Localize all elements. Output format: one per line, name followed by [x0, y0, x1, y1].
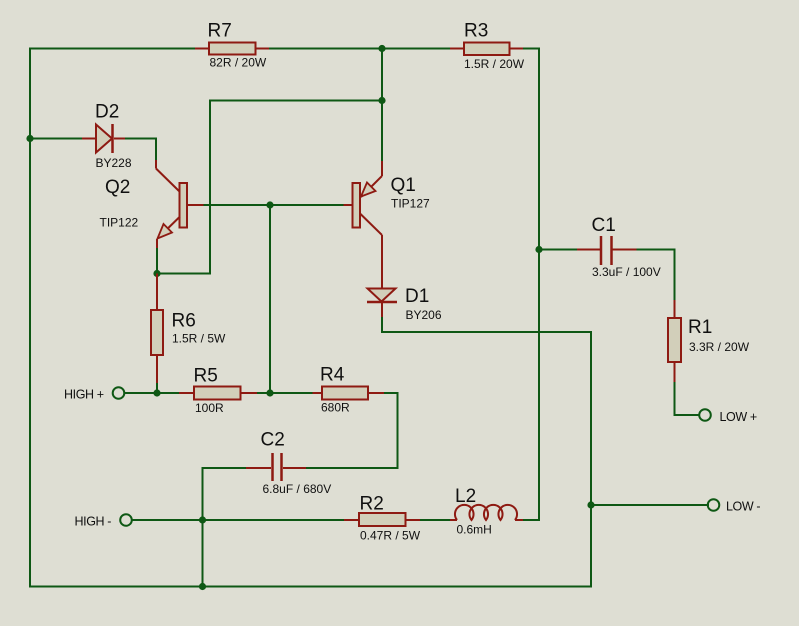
- svg-text:100R: 100R: [195, 401, 224, 415]
- wire D2 anode from left rail (30,138.5)-(82,138.5): [30, 138, 82, 140]
- wire R2 to L2 (420,520)-(450,520): [420, 519, 450, 521]
- wire R1 bottom to LOW+ (674.5,382)-(674.5,415)-(699,415): [675, 382, 700, 415]
- wire y100 link (210,100.5)-(382,100.5): [210, 100, 382, 102]
- node base line x270: [266, 201, 273, 208]
- node R6 bottom on HIGH+ line: [153, 389, 160, 396]
- svg-text:1.5R / 5W: 1.5R / 5W: [172, 332, 226, 346]
- resistor R5 100R: [179, 366, 257, 416]
- wire C2 left leg (246,468)-(202.5,468)-(202.5,586.5): [203, 468, 247, 587]
- svg-text:Q1: Q1: [391, 175, 416, 196]
- wire Q2 base to Q1 base (203.5,205)-(343.5,205): [204, 204, 344, 206]
- svg-text:R4: R4: [320, 365, 345, 386]
- node Q2 emitter R6 top: [153, 270, 160, 277]
- wire L2 to x539 (523,520)-(539,520): [523, 519, 539, 521]
- svg-text:R6: R6: [172, 311, 196, 332]
- svg-text:LOW -: LOW -: [726, 500, 760, 514]
- terminal LOW-: [708, 499, 761, 513]
- svg-text:6.8uF / 680V: 6.8uF / 680V: [263, 482, 332, 496]
- transistor Q2 TIP122: [100, 160, 204, 274]
- svg-text:3.3uF / 100V: 3.3uF / 100V: [592, 265, 661, 279]
- resistor R1 3.3R/20W: [668, 300, 750, 382]
- wire LOW- feed (591,505)-(708,505): [591, 504, 708, 506]
- wire x382 to Q1 emitter (382,100.5)-(382,158): [381, 101, 383, 162]
- wire R6 bottom stub (157,383)-(157,393): [156, 383, 158, 393]
- wire x591 vertical (591,332)-(591,586.5): [590, 332, 592, 587]
- wire C2 right (306,468)-(397.5,468): [306, 467, 398, 469]
- wire C1 left (539,249.5)-(577,249.5): [539, 249, 577, 251]
- resistor R4 680R: [313, 365, 385, 415]
- node LOW- branch on x591: [587, 501, 594, 508]
- svg-text:680R: 680R: [321, 401, 350, 415]
- terminal HIGH+: [64, 387, 124, 401]
- wire HIGH- to R2 (132,520)-(344,520): [132, 519, 344, 521]
- svg-text:R2: R2: [360, 494, 384, 515]
- wire x382 top (382,48.5)-(382,100.5): [381, 49, 383, 101]
- svg-text:LOW +: LOW +: [720, 410, 757, 424]
- capacitor C1 3.3uF/100V: [577, 215, 661, 279]
- diode D2 BY228: [82, 102, 132, 171]
- wire bottom rail (30,586.5)-(591,586.5): [30, 586, 591, 588]
- svg-text:3.3R / 20W: 3.3R / 20W: [689, 340, 750, 354]
- wire D2 cathode to corner (125,138.5)-(156,138.5)-(156,160): [125, 139, 156, 161]
- node top rail x382: [378, 45, 385, 52]
- svg-text:R1: R1: [688, 317, 712, 338]
- wire HIGH+ to R5 (124.5,393)-(179,393): [125, 392, 180, 394]
- wire Q2 emitter node to x210 riser (157,273.5)-(210,273.5)-(210,100.5): [157, 101, 210, 274]
- wire x270 vertical (270,205)-(270,393): [269, 205, 271, 393]
- svg-text:HIGH -: HIGH -: [75, 515, 112, 529]
- wire D1 cathode run (382,317)-(382,332)-(591,332): [382, 317, 591, 332]
- node C1 tap on x539: [535, 246, 542, 253]
- wire R4 to C2 riser (384,393)-(397.5,393)-(397.5,468): [384, 393, 398, 468]
- node D2 branch on left rail: [26, 135, 33, 142]
- terminal LOW+: [699, 409, 757, 424]
- svg-text:L2: L2: [455, 486, 476, 507]
- wire left vertical rail (30,48.5)-(30,586.5): [29, 49, 31, 587]
- resistor R3 1.5R/20W: [450, 21, 525, 72]
- svg-text:0.47R / 5W: 0.47R / 5W: [360, 529, 421, 543]
- node y100 x382: [378, 97, 385, 104]
- svg-text:C2: C2: [261, 430, 285, 451]
- node HIGH- branch x202.5: [199, 516, 206, 523]
- svg-text:R3: R3: [464, 21, 488, 42]
- capacitor C2 6.8uF/680V: [246, 430, 331, 497]
- svg-text:82R / 20W: 82R / 20W: [210, 56, 267, 70]
- svg-text:BY206: BY206: [406, 308, 442, 322]
- svg-text:C1: C1: [592, 215, 616, 236]
- svg-text:Q2: Q2: [105, 177, 130, 198]
- wire top rail left (30,48.5)-(195,48.5): [30, 48, 195, 50]
- svg-text:1.5R / 20W: 1.5R / 20W: [464, 57, 525, 71]
- wire R5 to R4 (257,393)-(312.5,393): [257, 392, 313, 394]
- node x270 on R5-R4 line: [266, 389, 273, 396]
- terminal HIGH-: [75, 514, 132, 528]
- svg-text:TIP127: TIP127: [391, 197, 430, 211]
- resistor R7 82R/20W: [195, 21, 269, 70]
- svg-text:D2: D2: [95, 102, 119, 123]
- wire C1 right to R1 (636.5,249.5)-(674.5,249.5)-(674.5,300): [637, 250, 675, 301]
- svg-text:BY228: BY228: [96, 156, 132, 170]
- inductor L2 0.6mH: [450, 486, 523, 537]
- wire top rail right (523,48.5)-(539,48.5): [523, 48, 539, 50]
- transistor Q1 TIP127: [344, 161, 431, 288]
- svg-text:R7: R7: [208, 21, 232, 42]
- resistor R2 0.47R/5W: [344, 494, 421, 543]
- node bottom rail x202.5: [199, 583, 206, 590]
- svg-text:D1: D1: [405, 286, 429, 307]
- wire x539 vertical (539,48.5)-(539,520): [538, 49, 540, 521]
- wire top rail mid (269,48.5)-(450,48.5): [269, 48, 450, 50]
- svg-text:TIP122: TIP122: [100, 216, 139, 230]
- svg-text:R5: R5: [194, 366, 218, 387]
- resistor R6 1.5R/5W: [151, 274, 226, 384]
- diode D1 BY206: [367, 286, 442, 322]
- svg-text:0.6mH: 0.6mH: [457, 523, 492, 537]
- svg-text:HIGH +: HIGH +: [64, 388, 104, 402]
